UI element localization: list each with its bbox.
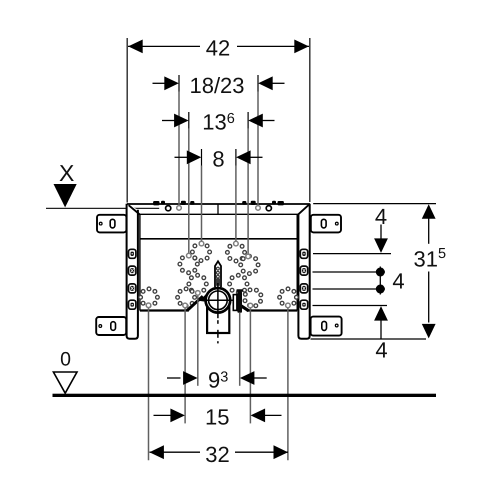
reference line rail slot 1: [313, 253, 391, 255]
frame face left edge: [139, 214, 141, 310]
leader line 8 right: [235, 166, 237, 242]
svg-text:42: 42: [206, 35, 230, 60]
hole ring far-left: [139, 287, 159, 308]
dimension 32 arrow left: [149, 445, 164, 459]
dimension 9.3 arrow left: [183, 371, 198, 385]
level line X: [46, 207, 159, 209]
leader line 32 right: [287, 308, 289, 460]
dimension 18/23 tail left: [153, 82, 167, 84]
leader circle 8 left: [199, 241, 204, 246]
svg-text:18/23: 18/23: [189, 73, 244, 98]
dimension 42 line: [128, 45, 309, 47]
clamp horizontal centreline: [199, 299, 233, 301]
rail clip 7: [272, 201, 276, 205]
dimension 32 line: [150, 451, 289, 453]
leader circle 8 right: [234, 241, 239, 246]
rail slot left 1: [129, 249, 136, 258]
dimension 31.5 arrow down: [422, 324, 436, 339]
leader line 32 left: [148, 308, 150, 460]
left side rail: [127, 204, 138, 339]
leader line 8 left: [201, 166, 203, 242]
dimension 18/23 arrow right: [258, 76, 273, 90]
leader circle 13.6 right: [246, 254, 251, 259]
drain socket box: [207, 306, 229, 333]
mounting plate top-left: [97, 215, 126, 233]
leader circle 13.6 left: [187, 253, 192, 258]
mounting plate bottom-left: [96, 317, 126, 335]
reference line rail slot 4: [313, 305, 388, 307]
dimension 42 arrow right: [294, 40, 309, 54]
leader line 9.3 left: [197, 296, 199, 386]
dimension 8 arrow right: [236, 150, 251, 164]
dimension 15 arrow left: [170, 409, 185, 423]
dimension 8 tail right: [249, 156, 263, 158]
svg-text:4: 4: [375, 204, 387, 229]
frame top rail front edge: [139, 213, 299, 215]
dimension 8 extension right: [235, 149, 237, 166]
hole ring left top: [191, 242, 212, 263]
dimension 4 bottom line: [380, 319, 382, 339]
leader circle 18/23 left: [177, 206, 182, 211]
frame face right edge: [296, 214, 298, 310]
dimension 15 tail right: [264, 414, 282, 416]
leader circle 15 left: [183, 303, 188, 308]
pipe clamp outer ring: [206, 288, 231, 313]
rail slot right 4: [300, 300, 307, 309]
reference line rail slot 2: [313, 271, 386, 273]
leader circle 32 right: [286, 303, 291, 308]
leader line 13.6 left: [188, 129, 190, 253]
dimension 18/23 tail right: [271, 82, 285, 84]
clamp vertical centreline inner: [217, 289, 219, 313]
hole ring right bottom: [243, 288, 263, 308]
screw head right: [266, 206, 271, 211]
dimension 8 tail left: [175, 156, 189, 158]
svg-text:0: 0: [60, 349, 71, 371]
frame bottom rail right segment: [247, 309, 298, 311]
rail slot left 2: [129, 266, 136, 275]
marker 0 triangle: [53, 372, 77, 393]
rail clip 6: [251, 201, 256, 205]
leader line 9.3 right: [239, 313, 241, 386]
dimension 4 top line: [380, 225, 382, 241]
hole ring right lower-left: [228, 273, 249, 294]
leader line 15 left: [184, 308, 186, 423]
dimension 13.6 tail left: [162, 120, 176, 122]
clamp left wedge: [199, 294, 207, 302]
clamp left strap: [187, 296, 203, 310]
svg-text:32: 32: [205, 442, 229, 467]
frame top-left bevel: [129, 205, 140, 214]
dimension 8 arrow left: [187, 150, 202, 164]
hole ring left lower-right: [187, 273, 208, 294]
dimension 4 middle dot upper: [376, 268, 385, 277]
dimension 31.5 line: [428, 217, 430, 323]
dimension 9.3 arrow right: [240, 371, 255, 385]
dimension 32 arrow right: [274, 445, 289, 459]
leader line 18/23 left: [178, 92, 180, 206]
mounting plate top-right: [311, 215, 341, 233]
marker X triangle: [54, 184, 77, 207]
drain centreline dashes: [217, 320, 219, 343]
tension screw cap: [236, 289, 243, 292]
dimension 15 tail left: [154, 414, 172, 416]
hole ring right middle: [239, 254, 260, 275]
rail clip 8: [278, 201, 284, 205]
svg-text:4: 4: [392, 269, 404, 294]
clamp vertical centreline: [217, 283, 219, 318]
leader circle 32 left: [146, 303, 151, 308]
hole ring left middle: [178, 254, 199, 275]
rail slot right 3: [300, 284, 307, 293]
dimension 13.6 extension right: [247, 112, 249, 129]
dimension 9.3 tail left: [167, 377, 181, 379]
rail clip 2: [161, 201, 165, 205]
rail clip 3: [181, 201, 186, 205]
reference line top (frame top level): [313, 203, 436, 205]
dimension 9.3 tail right: [253, 377, 267, 379]
dimension 13.6 tail right: [261, 120, 275, 122]
clamp right strap: [239, 305, 249, 311]
clamp right flange: [233, 295, 237, 311]
dimension 18/23 extension right: [257, 75, 259, 92]
rail slot right 1: [300, 249, 307, 258]
leader line 13.6 right: [247, 129, 249, 254]
dimension 18/23 extension left: [178, 75, 180, 92]
dimension 13.6 extension left: [188, 112, 190, 129]
frame top-right bevel: [298, 204, 309, 214]
dimension 42 arrow left: [128, 40, 143, 54]
rail clip 5: [242, 201, 246, 205]
dimension 4 middle dot lower: [376, 285, 385, 294]
dimension 13.6 arrow right: [248, 114, 262, 128]
top rail bottom edge: [140, 238, 297, 240]
dimension 31.5 arrow up: [422, 204, 436, 219]
rail clip 1: [153, 201, 159, 205]
dimension 13.6 arrow left: [174, 114, 189, 128]
threaded rod: [215, 261, 221, 287]
dimension 18/23 arrow left: [164, 76, 179, 90]
top rail centre seam: [217, 204, 219, 214]
dimension 4 middle connector: [379, 267, 381, 295]
frame bottom rail left segment: [140, 309, 189, 311]
tension screw: [237, 291, 242, 312]
pipe clamp inner ring: [209, 291, 228, 310]
svg-text:X: X: [59, 160, 74, 186]
leader circle 15 right: [248, 303, 253, 308]
hole ring far-right: [278, 287, 299, 308]
rail clip 4: [190, 201, 194, 205]
screw head left: [166, 206, 171, 211]
floor line: [53, 394, 437, 397]
right side rail: [298, 204, 309, 339]
rail slot right 2: [300, 266, 307, 275]
dimension 15 arrow right: [251, 409, 266, 423]
svg-text:8: 8: [212, 147, 224, 172]
dimension 8 extension left: [201, 149, 203, 166]
reference line rail slot 3: [313, 288, 386, 290]
dimension 4 top arrow: [374, 238, 388, 253]
svg-text:4: 4: [375, 338, 387, 363]
svg-text:15: 15: [205, 405, 229, 430]
leader circle 9.3 left: [196, 291, 201, 296]
hole ring right top: [226, 242, 247, 263]
rail slot left 4: [129, 300, 136, 309]
leader line 18/23 right: [257, 92, 259, 206]
dimension 4 bottom arrow: [374, 306, 388, 321]
dimension 42 extension right: [309, 38, 311, 202]
dimension 42 extension left: [126, 38, 128, 203]
mounting plate bottom-right: [311, 317, 342, 336]
leader line 15 right: [249, 308, 251, 423]
rail slot left 3: [129, 284, 136, 293]
frame top rail back edge: [127, 203, 310, 205]
leader circle 18/23 right: [256, 206, 261, 211]
reference line rail bottom: [311, 338, 427, 340]
hole ring left bottom: [176, 287, 197, 308]
